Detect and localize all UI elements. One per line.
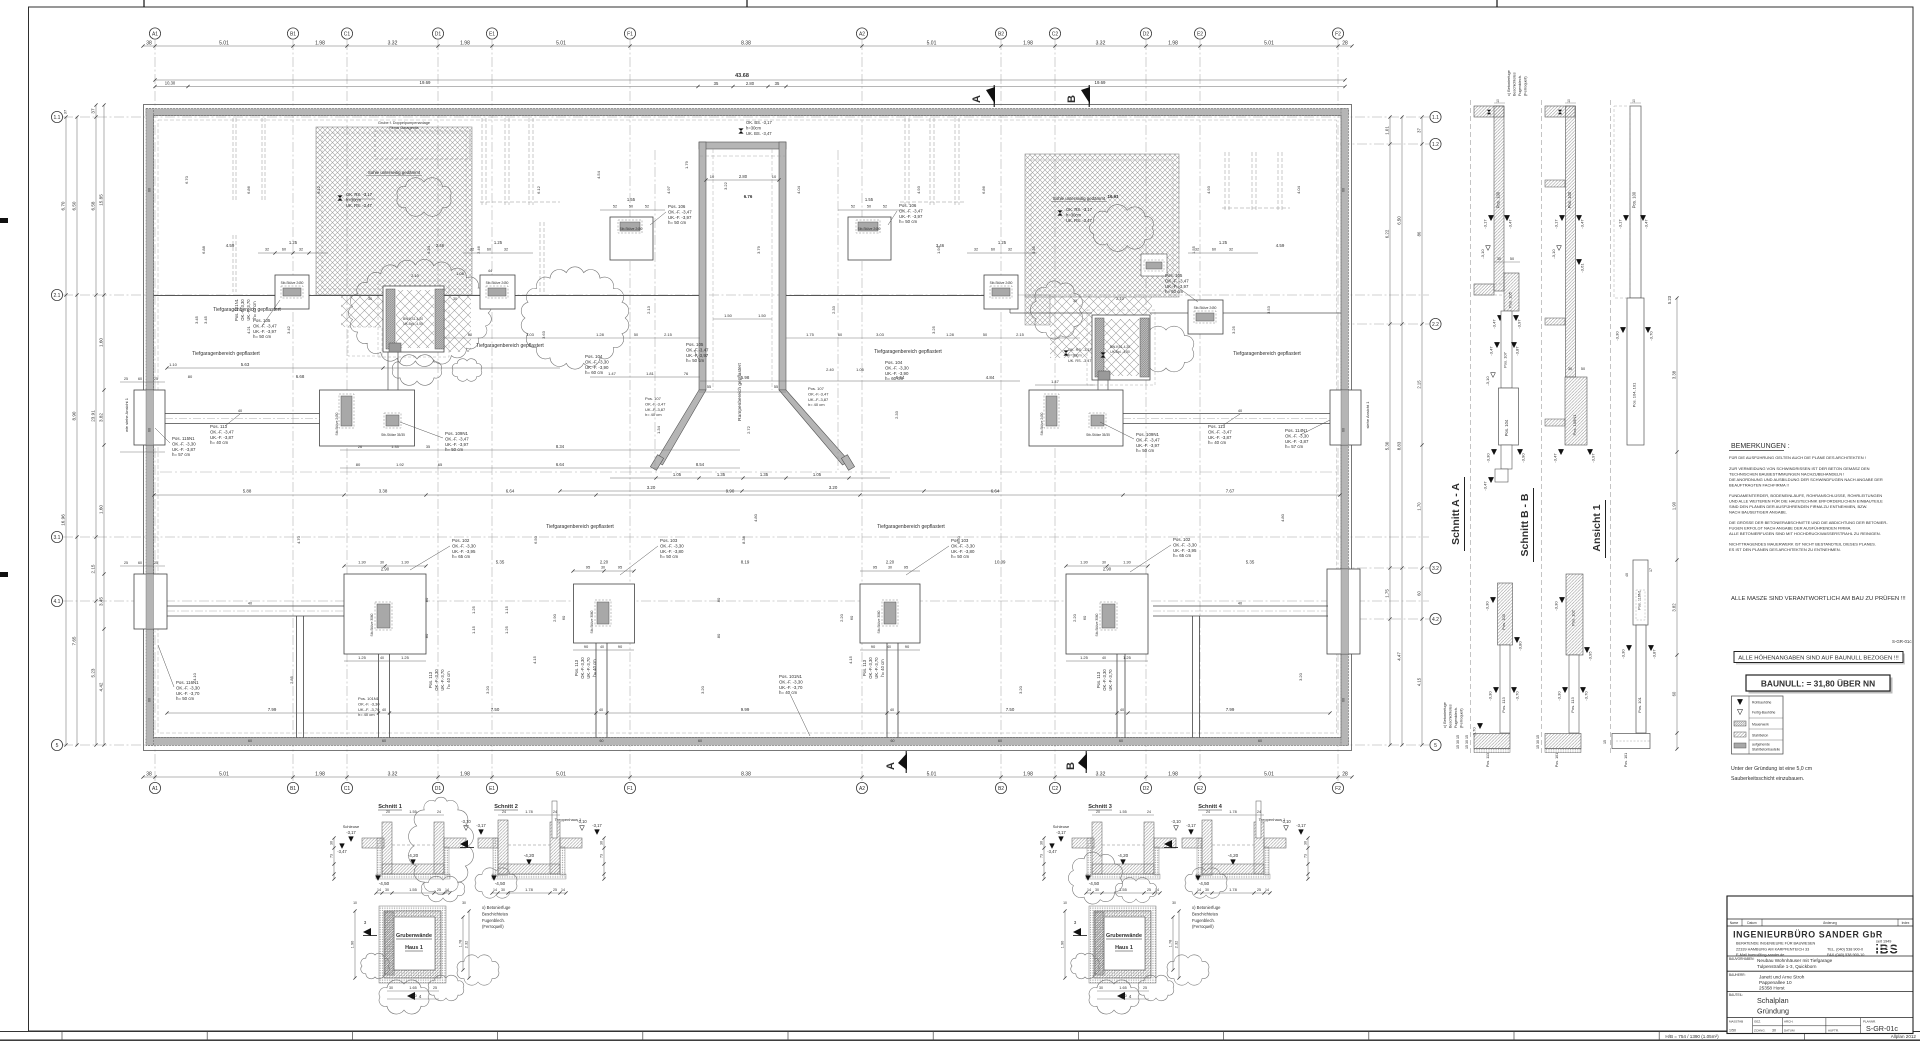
svg-text:Pos. 113: Pos. 113	[1486, 753, 1490, 767]
strip A Pos 107 band	[1501, 311, 1512, 388]
grid bubbles top row	[149, 28, 160, 39]
svg-text:1.78: 1.78	[525, 810, 532, 814]
svg-text:3.03: 3.03	[526, 332, 535, 337]
svg-text:-4,20: -4,20	[1228, 853, 1239, 858]
fold mark top edge	[746, 0, 748, 7]
svg-text:-3,17: -3,17	[1186, 823, 1196, 828]
svg-text:1.05: 1.05	[813, 472, 822, 477]
svg-text:6.88: 6.88	[201, 245, 206, 254]
pad P11b crossing left wall (Pos 116N1)	[134, 574, 167, 629]
svg-text:Schleuse: Schleuse	[1053, 824, 1070, 829]
svg-text:25: 25	[1147, 888, 1151, 892]
revision cloud in hatch 1	[397, 178, 451, 217]
svg-text:1.98: 1.98	[315, 772, 325, 778]
dim row below ramp 3.20/3.20	[560, 490, 1000, 492]
svg-text:FUGEN ERFOLGT NACH ANGABE DER: FUGEN ERFOLGT NACH ANGABE DER AUSFÜHREND…	[1729, 526, 1851, 531]
Ansicht 1 top white band	[1630, 106, 1641, 298]
svg-text:4.93: 4.93	[916, 185, 921, 194]
pad P9d Pos 102 (mirror of P9a)	[1066, 574, 1148, 654]
svg-text:A2: A2	[859, 786, 865, 792]
pad P3 Pos 108 (F1)	[610, 217, 653, 260]
svg-text:2.40: 2.40	[826, 367, 835, 372]
detail Schnitt 4 inner dashed water line	[1212, 844, 1254, 846]
svg-text:E1: E1	[489, 31, 495, 37]
svg-text:OK. BS. -3,17: OK. BS. -3,17	[746, 120, 773, 125]
svg-text:DIE ANORDNUNG UND AUSBILDUNG D: DIE ANORDNUNG UND AUSBILDUNG DER SCHWIND…	[1729, 477, 1883, 482]
dim row y=495 (5.88/3.38/6.64)	[154, 494, 1340, 496]
svg-text:4.97: 4.97	[666, 185, 671, 194]
svg-text:30: 30	[600, 841, 604, 845]
svg-text:Tiefgaragenbereich gepflastert: Tiefgaragenbereich gepflastert	[1233, 351, 1301, 357]
svg-text:10: 10	[1567, 99, 1571, 103]
svg-text:40: 40	[248, 602, 252, 606]
svg-text:60: 60	[282, 248, 286, 252]
svg-text:40: 40	[1238, 409, 1242, 413]
svg-text:ZCHNG.: ZCHNG.	[1754, 1029, 1766, 1033]
svg-text:30: 30	[601, 566, 605, 570]
svg-text:30: 30	[1497, 257, 1501, 261]
svg-text:h= 50 cm: h= 50 cm	[899, 219, 918, 224]
svg-text:14: 14	[1155, 888, 1159, 892]
svg-text:6.50: 6.50	[72, 201, 77, 210]
hatch flank left of shaft 1	[341, 296, 383, 327]
svg-text:-3,70: -3,70	[1649, 331, 1654, 341]
strip at B1 from beam to bottom wall	[296, 616, 298, 738]
svg-text:35: 35	[714, 81, 719, 86]
svg-text:7.50: 7.50	[1006, 707, 1015, 712]
svg-text:2.33: 2.33	[894, 410, 899, 419]
strip B Pos 102 block lower	[1566, 574, 1583, 655]
svg-text:-3,30: -3,30	[1485, 601, 1490, 611]
svg-text:Stahlbeton: Stahlbeton	[1752, 734, 1768, 738]
svg-text:2.20: 2.20	[839, 613, 844, 622]
svg-text:15 30 15: 15 30 15	[1456, 735, 1460, 749]
dimension column right inner	[1389, 117, 1391, 745]
svg-text:6.64: 6.64	[991, 489, 1000, 494]
svg-text:8.54: 8.54	[696, 462, 705, 467]
svg-text:Schalplan: Schalplan	[1757, 996, 1789, 1005]
pad P6 Pos 105 right	[1188, 300, 1223, 334]
svg-text:Pos. 101: Pos. 101	[1637, 696, 1642, 713]
svg-text:H/B = 754 / 1390 (1.05m²): H/B = 754 / 1390 (1.05m²)	[1665, 1034, 1719, 1039]
svg-text:-3,10: -3,10	[1480, 249, 1485, 259]
svg-text:1.25: 1.25	[471, 605, 476, 614]
svg-text:UK.-F. -3,80: UK.-F. -3,80	[660, 549, 684, 554]
svg-text:Pos. 109N1: Pos. 109N1	[445, 431, 469, 436]
svg-text:UK.-F.-3,87: UK.-F.-3,87	[645, 407, 666, 412]
svg-text:iBS: iBS	[1875, 943, 1898, 957]
svg-text:10: 10	[353, 901, 357, 905]
svg-text:DIE GRÖSSE DER BETONIERABSCHNI: DIE GRÖSSE DER BETONIERABSCHNITTE UND DI…	[1729, 520, 1888, 525]
svg-text:40: 40	[382, 708, 386, 712]
ramp right flare leg	[779, 390, 849, 465]
svg-text:24: 24	[502, 810, 506, 814]
svg-text:60: 60	[891, 739, 895, 743]
svg-text:2.20: 2.20	[1072, 613, 1077, 622]
svg-text:2.15: 2.15	[91, 564, 96, 573]
detail Schnitt 1 small clouds	[422, 876, 465, 902]
svg-text:50: 50	[629, 205, 633, 209]
svg-text:1.55: 1.55	[1119, 810, 1126, 814]
svg-text:Pos. 100: Pos. 100	[1632, 191, 1637, 208]
svg-text:2.90: 2.90	[1103, 567, 1112, 572]
svg-text:OK.-F.-3,30: OK.-F.-3,30	[580, 657, 585, 679]
title row BAUVORHABEN	[1727, 955, 1913, 957]
svg-text:Haus 1: Haus 1	[405, 945, 423, 951]
hatch flank left of shaft 2	[1050, 296, 1092, 358]
svg-text:BEMERKUNGEN :: BEMERKUNGEN :	[1731, 443, 1790, 450]
dim row y=713 bottom interior	[167, 712, 1330, 714]
svg-text:-4,50: -4,50	[1199, 881, 1210, 886]
svg-text:5.63: 5.63	[241, 362, 250, 367]
svg-text:Name: Name	[1730, 921, 1739, 925]
svg-text:25: 25	[154, 377, 158, 381]
svg-text:TECHNISCHEN BAUBESTIMMUNGEN NA: TECHNISCHEN BAUBESTIMMUNGEN NACHZUBEHAND…	[1729, 472, 1844, 477]
legend row Fertig-Bauhoehe	[1737, 709, 1742, 714]
svg-text:(Ferroquell): (Ferroquell)	[1460, 708, 1464, 728]
svg-text:UK.-F. -3,70: UK.-F. -3,70	[779, 685, 803, 690]
svg-text:1.98: 1.98	[315, 41, 325, 47]
svg-text:F2: F2	[1335, 786, 1341, 792]
interior wall line y=295 segment 3	[786, 295, 1010, 297]
svg-text:OK. RS. -3,17: OK. RS. -3,17	[346, 192, 373, 197]
svg-text:UK.-F. -3,90: UK.-F. -3,90	[585, 365, 609, 370]
svg-text:h= 40 cm: h= 40 cm	[358, 712, 375, 717]
detail Schnitt 3 dotted base layer	[1086, 874, 1160, 879]
svg-text:15.85: 15.85	[99, 194, 104, 206]
svg-text:1.25: 1.25	[1219, 240, 1228, 245]
svg-text:Schnitt 2: Schnitt 2	[494, 804, 518, 810]
svg-text:1.75: 1.75	[1385, 589, 1390, 598]
svg-text:95: 95	[904, 565, 909, 570]
svg-text:1.47: 1.47	[608, 371, 617, 376]
svg-text:-3,30: -3,30	[1621, 649, 1626, 659]
svg-text:Pos. 113: Pos. 113	[428, 671, 433, 688]
svg-text:1.25: 1.25	[1080, 655, 1089, 660]
svg-text:B2: B2	[998, 31, 1004, 37]
svg-text:UK.-F. -3,70: UK.-F. -3,70	[176, 691, 200, 696]
svg-text:-3,47: -3,47	[1483, 481, 1488, 491]
svg-text:UK.-F. -3,97: UK.-F. -3,97	[445, 442, 469, 447]
svg-text:UK.-F. -3,90: UK.-F. -3,90	[885, 371, 909, 376]
detail Schnitt 1 left dim column	[333, 838, 335, 879]
svg-text:2.20: 2.20	[886, 560, 895, 565]
svg-text:-3,47: -3,47	[1047, 849, 1057, 854]
title bottom row cells	[1727, 1017, 1913, 1019]
svg-text:2.80: 2.80	[746, 81, 755, 86]
detail Grubenwaende inner room	[1104, 917, 1145, 970]
svg-text:30: 30	[1172, 901, 1176, 905]
plan inner wall line	[154, 116, 1342, 738]
svg-text:10: 10	[710, 174, 715, 179]
svg-text:17: 17	[1649, 568, 1653, 572]
svg-text:60: 60	[600, 739, 604, 743]
detail Schnitt 2 U-pit walls	[498, 820, 508, 875]
svg-text:DATUM: DATUM	[1784, 1029, 1795, 1033]
svg-text:30: 30	[1040, 841, 1044, 845]
svg-text:37: 37	[91, 108, 96, 114]
svg-text:52: 52	[883, 205, 887, 209]
svg-text:4.93: 4.93	[1206, 185, 1211, 194]
dim row y=462 (80/1.92/65)	[340, 467, 740, 469]
detail Schnitt 2 level labels	[460, 840, 468, 848]
level mark hatch1	[337, 195, 342, 200]
svg-text:FÜR DIE AUSFÜHRUNG GELTEN AUCH: FÜR DIE AUSFÜHRUNG GELTEN AUCH DIE PLÄNE…	[1729, 455, 1866, 460]
svg-text:10: 10	[1496, 99, 1500, 103]
svg-text:Pos. 102: Pos. 102	[452, 538, 470, 543]
svg-text:25: 25	[124, 377, 128, 381]
svg-text:1.78: 1.78	[1229, 810, 1236, 814]
svg-text:Stb-Stütze 35/35: Stb-Stütze 35/35	[381, 433, 405, 437]
svg-text:Pappenallee 10: Pappenallee 10	[1759, 980, 1792, 985]
svg-text:37: 37	[63, 109, 68, 114]
svg-text:OK.-F. -3,30: OK.-F. -3,30	[779, 679, 803, 684]
svg-text:Pos. 102: Pos. 102	[1571, 609, 1576, 626]
svg-text:15: 15	[1603, 740, 1607, 744]
beam strip pad P9d to P10b	[1153, 605, 1328, 607]
svg-text:4.15: 4.15	[1417, 677, 1422, 686]
svg-text:40: 40	[599, 708, 603, 712]
svg-text:-3,30: -3,30	[1615, 331, 1620, 341]
section Schnitt B-B dashed reference line	[1541, 100, 1543, 756]
svg-text:60: 60	[998, 739, 1002, 743]
svg-text:4.47: 4.47	[1397, 652, 1402, 661]
svg-text:50: 50	[983, 333, 987, 337]
svg-text:x) Betonierfuge: x) Betonierfuge	[1192, 905, 1221, 910]
svg-text:1.15: 1.15	[471, 625, 476, 634]
svg-text:BAUTEIL:: BAUTEIL:	[1729, 993, 1743, 997]
interior dashed stub left bay 2	[232, 235, 234, 292]
svg-text:2.10: 2.10	[1119, 994, 1126, 998]
section Ansicht 1 dashed reference line	[1610, 100, 1612, 756]
fold mark left edge	[0, 218, 8, 223]
svg-text:32: 32	[265, 248, 269, 252]
svg-text:Pos. 101: Pos. 101	[1624, 753, 1628, 767]
detail Schnitt 2 left dim column	[603, 838, 605, 879]
svg-text:OK.-F.-3,47: OK.-F.-3,47	[645, 401, 666, 406]
svg-text:(Ferroquell): (Ferroquell)	[1524, 76, 1528, 96]
svg-text:6.58: 6.58	[91, 201, 96, 210]
detail Schnitt 1 revision cloud large	[409, 797, 474, 895]
svg-text:3.82: 3.82	[1672, 603, 1677, 612]
svg-text:-3,17: -3,17	[1056, 830, 1066, 835]
dim group 1.25/32-60-32 (B2)	[967, 252, 1037, 254]
svg-text:73: 73	[1040, 854, 1044, 858]
vertical links shaft2 to P8R	[1097, 380, 1099, 390]
svg-text:MASSTAB: MASSTAB	[1729, 1020, 1743, 1024]
svg-text:4.04: 4.04	[1296, 185, 1301, 194]
svg-text:1.65: 1.65	[1119, 986, 1126, 990]
svg-text:FAX (040) 538 900-10: FAX (040) 538 900-10	[1827, 953, 1864, 957]
svg-text:h= 50 cm: h= 50 cm	[660, 554, 679, 559]
pad P10a crossing right wall (Pos 114N1)	[1330, 390, 1361, 445]
detail Grubenwaende dims	[387, 990, 439, 992]
detail Schnitt 3 inner dashed water line	[1102, 844, 1144, 846]
dim row y=450 small	[340, 449, 740, 451]
detail Schnitt 2 top dim	[498, 814, 560, 816]
svg-text:90: 90	[618, 644, 623, 649]
svg-text:E2: E2	[1197, 786, 1203, 792]
svg-text:Beschichtetes: Beschichtetes	[1192, 911, 1218, 916]
svg-text:1.81: 1.81	[646, 371, 655, 376]
svg-text:OK.-F. -3,47: OK.-F. -3,47	[1136, 437, 1160, 442]
dim row y=335 (60/3.03 mid left)	[444, 337, 700, 339]
svg-text:3.2: 3.2	[1432, 566, 1439, 572]
svg-text:26: 26	[358, 445, 362, 449]
svg-text:30: 30	[501, 888, 505, 892]
detail Schnitt 4 level labels	[1164, 840, 1172, 848]
dim row below lower pads	[344, 660, 426, 662]
svg-text:60: 60	[1342, 428, 1346, 432]
vertical links shaft1 to P8L	[387, 352, 389, 390]
svg-text:AUFTR.: AUFTR.	[1828, 1029, 1839, 1033]
svg-text:52: 52	[613, 205, 617, 209]
svg-text:-3,30: -3,30	[1488, 691, 1493, 701]
svg-text:7.99: 7.99	[268, 707, 277, 712]
svg-text:2.13: 2.13	[646, 305, 651, 314]
ramp inner dashed lines	[712, 149, 714, 390]
svg-text:50: 50	[1581, 367, 1585, 371]
svg-text:Schnitt 4: Schnitt 4	[1198, 804, 1223, 810]
revision cloud right of shaft 1	[521, 267, 629, 369]
revision cloud below shaft 2	[1138, 326, 1194, 372]
detail Schnitt 3 dim row below	[1086, 892, 1160, 894]
svg-text:Beschichtetes: Beschichtetes	[1513, 72, 1517, 96]
svg-text:1.60: 1.60	[99, 505, 104, 514]
interior dashed comb C1 bay	[481, 118, 483, 205]
svg-text:30: 30	[1095, 888, 1099, 892]
svg-text:6.86: 6.86	[246, 185, 251, 194]
svg-text:OK.-F. -3,30: OK.-F. -3,30	[172, 441, 196, 446]
svg-text:Sohle unterseitig gedämmt: Sohle unterseitig gedämmt	[368, 170, 421, 175]
hatch bridge above shaft 2	[1092, 297, 1152, 315]
svg-text:ARCH.: ARCH.	[1784, 1020, 1794, 1024]
svg-text:14: 14	[1265, 888, 1269, 892]
hatch zone 2 (Grube, top-right)	[1025, 154, 1179, 297]
svg-text:80: 80	[716, 597, 721, 602]
svg-text:24: 24	[437, 810, 441, 814]
svg-text:90: 90	[905, 644, 910, 649]
svg-text:h=30cm: h=30cm	[346, 197, 362, 202]
svg-text:8.38: 8.38	[741, 41, 751, 47]
strip pad P9c to bottom wall	[886, 643, 888, 738]
svg-text:1.78: 1.78	[459, 940, 463, 947]
svg-text:UK.-F. -3,97: UK.-F. -3,97	[1165, 284, 1189, 289]
svg-text:15 30 15: 15 30 15	[1536, 735, 1540, 749]
svg-text:16.96: 16.96	[61, 514, 66, 526]
svg-text:BEAUFTRAGTEN FACHFIRMA !!: BEAUFTRAGTEN FACHFIRMA !!	[1729, 483, 1789, 488]
svg-text:3.20: 3.20	[647, 485, 656, 490]
svg-text:Pos. 115N1: Pos. 115N1	[172, 436, 195, 441]
svg-text:2.46: 2.46	[476, 245, 481, 254]
svg-text:1.55: 1.55	[865, 197, 874, 202]
svg-text:60: 60	[849, 615, 854, 620]
svg-text:3: 3	[364, 920, 367, 925]
detail Schnitt 1 inner dashed water line	[392, 844, 434, 846]
svg-text:Unter der Gründung ist eine 5,: Unter der Gründung ist eine 5,0 cm	[1731, 766, 1812, 772]
svg-text:OK.-F. -3,30: OK.-F. -3,30	[1285, 433, 1309, 438]
dim group 1.25/32-60-32 left (B1)	[258, 252, 328, 254]
svg-text:3.45: 3.45	[194, 315, 199, 324]
svg-text:40: 40	[1625, 573, 1629, 577]
svg-text:1.98: 1.98	[1023, 772, 1033, 778]
svg-text:3.45: 3.45	[203, 315, 208, 324]
svg-text:3.32: 3.32	[388, 772, 398, 778]
beam strip P11a to P8L	[165, 413, 320, 415]
svg-text:1.25: 1.25	[358, 655, 367, 660]
svg-text:UK.-F.-3,70: UK.-F.-3,70	[246, 299, 251, 321]
svg-text:Pos. 113: Pos. 113	[1096, 671, 1101, 688]
svg-text:5: 5	[1434, 743, 1437, 749]
svg-text:h= 50 cm: h= 50 cm	[668, 220, 687, 225]
Ansicht 1 middle band	[1627, 298, 1644, 445]
svg-text:1.34: 1.34	[656, 425, 661, 434]
svg-text:3.22: 3.22	[723, 181, 728, 190]
svg-text:-3,30: -3,30	[1554, 601, 1559, 611]
svg-text:Schnitt A - A: Schnitt A - A	[1450, 483, 1462, 545]
svg-text:60: 60	[561, 615, 566, 620]
svg-text:40: 40	[380, 656, 384, 660]
svg-text:1.10: 1.10	[169, 362, 178, 367]
svg-text:UK.-F. -3,87: UK.-F. -3,87	[1208, 435, 1232, 440]
svg-text:UK.-F. -3,97: UK.-F. -3,97	[668, 215, 692, 220]
svg-text:-3,17: -3,17	[1554, 219, 1559, 229]
svg-text:40: 40	[600, 645, 604, 649]
svg-text:ALLE HÖHENANGABEN SIND AUF BAU: ALLE HÖHENANGABEN SIND AUF BAUNULL BEZOG…	[1738, 655, 1899, 662]
svg-text:UK.-F.-3,87: UK.-F.-3,87	[808, 397, 829, 402]
svg-text:2.10: 2.10	[411, 273, 420, 278]
dimension column left 3	[95, 105, 97, 745]
svg-text:3.20: 3.20	[1298, 672, 1303, 681]
svg-text:Gründung: Gründung	[1757, 1007, 1789, 1016]
svg-text:10: 10	[772, 174, 777, 179]
svg-text:3.20: 3.20	[485, 685, 490, 694]
svg-text:C1: C1	[344, 31, 351, 37]
svg-text:3.25: 3.25	[931, 325, 936, 334]
svg-text:3.20: 3.20	[1018, 685, 1023, 694]
svg-text:25: 25	[124, 561, 128, 565]
svg-text:Pos. 105: Pos. 105	[1508, 291, 1513, 308]
svg-text:2.32: 2.32	[465, 941, 469, 948]
svg-text:Pos. 104, 101: Pos. 104, 101	[1632, 382, 1637, 407]
svg-text:OK. RS. -3,17: OK. RS. -3,17	[1068, 348, 1092, 352]
svg-text:40: 40	[1102, 656, 1106, 660]
svg-text:6.50: 6.50	[533, 535, 538, 544]
svg-text:1.05: 1.05	[856, 367, 865, 372]
svg-text:25: 25	[553, 888, 557, 892]
svg-text:UK.-F.-3,70: UK.-F.-3,70	[1108, 669, 1113, 691]
svg-text:10,30: 10,30	[165, 81, 176, 86]
svg-text:Index: Index	[1902, 921, 1910, 925]
svg-text:1.30: 1.30	[1080, 560, 1089, 565]
svg-text:37: 37	[1417, 128, 1422, 133]
svg-text:90: 90	[584, 644, 589, 649]
svg-text:C2: C2	[1052, 31, 1059, 37]
svg-text:F1: F1	[627, 786, 633, 792]
svg-text:32: 32	[1195, 248, 1199, 252]
svg-text:5.01: 5.01	[219, 41, 229, 47]
wall bottom (grey band)	[146, 738, 1349, 746]
svg-text:-3,47: -3,47	[1508, 219, 1513, 229]
svg-text:73: 73	[600, 854, 604, 858]
svg-text:2.10: 2.10	[409, 994, 416, 998]
svg-text:UK.-F. -3,87: UK.-F. -3,87	[210, 435, 234, 440]
detail Schnitt 4 top dim	[1202, 814, 1264, 816]
svg-text:Schleuse: Schleuse	[343, 824, 360, 829]
svg-text:5.01: 5.01	[556, 41, 566, 47]
svg-text:OK.-F. -3,47: OK.-F. -3,47	[1208, 429, 1232, 434]
svg-text:2.72: 2.72	[746, 425, 751, 434]
